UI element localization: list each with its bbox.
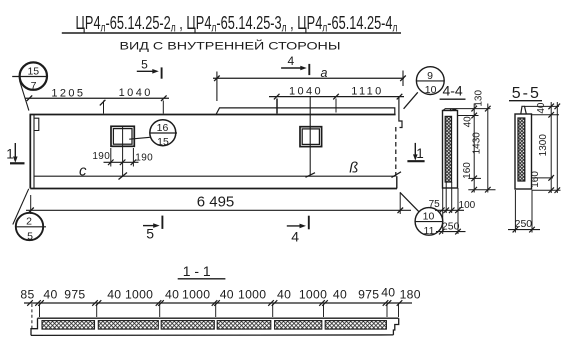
panel top ridge [216, 108, 395, 115]
svg-text:180: 180 [400, 288, 421, 302]
svg-text:16: 16 [157, 122, 169, 134]
svg-text:1000: 1000 [182, 288, 210, 302]
svg-text:6 495: 6 495 [197, 193, 235, 210]
marker circle 9/10 [404, 67, 445, 109]
section cut marker 4 top [281, 54, 309, 75]
svg-text:1430: 1430 [471, 132, 482, 155]
svg-text:5: 5 [146, 226, 154, 242]
svg-text:40: 40 [277, 288, 291, 302]
svg-text:160: 160 [530, 171, 541, 188]
section 1-1 hatched band [42, 321, 386, 330]
svg-text:85: 85 [20, 288, 34, 302]
svg-text:40: 40 [165, 288, 179, 302]
svg-text:190: 190 [135, 153, 153, 164]
svg-text:40: 40 [381, 285, 395, 299]
svg-text:40: 40 [463, 116, 474, 128]
svg-text:1205: 1205 [51, 87, 85, 99]
section 1-1 title [178, 263, 226, 279]
svg-text:975: 975 [64, 288, 85, 302]
svg-text:40: 40 [536, 102, 547, 114]
opening dims 190/190 [104, 148, 139, 167]
section 5-5 [508, 85, 561, 233]
svg-text:130: 130 [473, 90, 484, 107]
marker circle 2/5 [13, 189, 46, 243]
marker circle 16/15 [129, 120, 177, 148]
axis line through right opening [306, 97, 316, 177]
svg-text:4: 4 [291, 228, 299, 244]
svg-text:40: 40 [107, 288, 121, 302]
section 4-4 [429, 82, 496, 234]
svg-text:5-5: 5-5 [512, 85, 541, 102]
svg-text:1000: 1000 [299, 288, 327, 302]
svg-text:ЦР4л-65.14.25-2л , ЦР4л-65.14.: ЦР4л-65.14.25-2л , ЦР4л-65.14.25-3л , ЦР… [76, 13, 398, 35]
svg-text:250: 250 [515, 218, 533, 230]
svg-text:250: 250 [442, 220, 460, 232]
marker circle 10/11 [400, 192, 444, 237]
svg-text:4-4: 4-4 [442, 82, 462, 98]
svg-text:40: 40 [220, 288, 234, 302]
svg-text:с: с [79, 163, 87, 180]
overall dimension 6495 [26, 193, 411, 214]
section cut marker 5 top [137, 58, 162, 79]
panel elevation outline [30, 115, 398, 189]
svg-text:4: 4 [287, 54, 294, 68]
panel right edge with hidden line [392, 97, 403, 189]
opening right square [300, 127, 322, 147]
svg-text:1: 1 [6, 147, 14, 162]
svg-text:7: 7 [31, 80, 37, 92]
svg-text:40: 40 [43, 288, 57, 302]
svg-text:ВИД С ВНУТРЕННЕЙ СТОРОНЫ: ВИД С ВНУТРЕННЕЙ СТОРОНЫ [120, 39, 341, 52]
section cut marker 1 right [407, 143, 424, 161]
svg-text:190: 190 [92, 151, 110, 162]
section cut marker 5 bottom [143, 216, 162, 242]
svg-text:9: 9 [427, 70, 433, 82]
section 1-1 plank [31, 318, 399, 335]
svg-text:1000: 1000 [125, 288, 153, 302]
svg-text:975: 975 [358, 288, 379, 302]
svg-text:а: а [321, 66, 328, 80]
svg-text:15: 15 [27, 65, 39, 77]
marker circle 15/7 [12, 62, 48, 110]
svg-text:5: 5 [27, 231, 33, 243]
svg-text:1110: 1110 [351, 85, 383, 97]
section cut marker 1 left [6, 143, 24, 163]
svg-text:160: 160 [462, 162, 473, 179]
svg-text:1 - 1: 1 - 1 [183, 263, 211, 279]
ridge extension stubs [276, 99, 278, 114]
svg-text:1000: 1000 [238, 288, 266, 302]
title designations [62, 13, 401, 35]
svg-text:ß: ß [349, 159, 358, 176]
svg-text:11: 11 [424, 225, 435, 237]
svg-text:1040: 1040 [289, 85, 323, 97]
svg-text:1300: 1300 [538, 134, 549, 157]
svg-text:1040: 1040 [119, 87, 153, 99]
svg-text:1: 1 [416, 146, 424, 161]
svg-text:10: 10 [423, 211, 435, 223]
svg-text:15: 15 [157, 136, 169, 148]
top dimension line left 1205/1040 [26, 95, 170, 113]
section 1-1 dimension row [24, 300, 412, 328]
svg-text:10: 10 [425, 84, 437, 96]
dimension line a [213, 71, 406, 102]
svg-text:40: 40 [333, 288, 347, 302]
opening left square [111, 126, 134, 179]
svg-text:100: 100 [459, 200, 476, 211]
svg-text:2: 2 [26, 216, 32, 228]
svg-text:75: 75 [429, 199, 441, 210]
section cut marker 4 bottom [287, 216, 309, 245]
top dimension line right 1040/1110 [269, 94, 404, 113]
svg-text:5: 5 [141, 58, 148, 72]
